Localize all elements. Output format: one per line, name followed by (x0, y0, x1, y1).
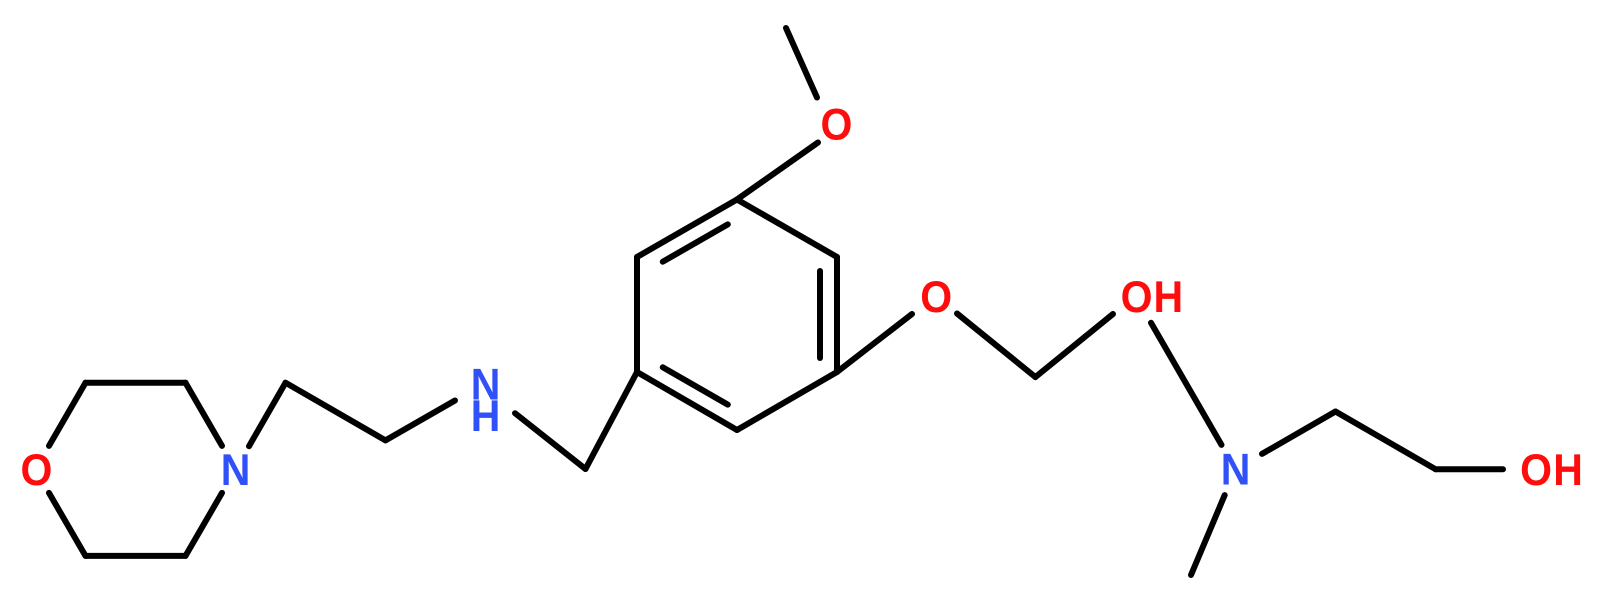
morpholine bond Cm3-N1 (186, 383, 223, 446)
chain bond N1-V1 (249, 383, 286, 447)
bond O2-CH3 methyl (786, 28, 817, 98)
svg-text:N: N (221, 445, 251, 495)
benzene bond B-C (834, 257, 840, 372)
chain bond V1-V2 (286, 383, 386, 441)
benzene bond C-D (737, 372, 837, 430)
morpholine bond N1-Cm5 (186, 493, 223, 556)
bond N2-V5 (1262, 412, 1336, 454)
bond A-O2 methoxy (737, 143, 818, 200)
svg-text:H: H (1553, 446, 1583, 496)
morpholine bond Cm6-O1 (49, 493, 86, 556)
bond O3-V4 (957, 314, 1035, 378)
svg-text:O: O (1121, 273, 1153, 323)
bond C-O3 aryl ether (837, 314, 912, 372)
svg-text:O: O (21, 446, 53, 496)
benzene bond A-B (737, 200, 837, 258)
bond V4-O4 to OH (1035, 314, 1113, 377)
benzene bond E-F (634, 257, 640, 372)
benzene bond D-E (637, 372, 737, 430)
benzene double bond inner D-E (663, 367, 728, 404)
bond V5-V6 (1336, 412, 1436, 470)
bond V6-O5 to OH (1436, 466, 1504, 472)
svg-text:O: O (821, 100, 853, 150)
morpholine bond Cm5-Cm6 (86, 553, 186, 559)
bond N2-CH3 methyl (1191, 495, 1225, 575)
svg-text:H: H (471, 392, 501, 442)
svg-text:N: N (1221, 445, 1251, 495)
benzene bond F-A (637, 200, 737, 258)
morpholine ring: bond O1-Cm2 (49, 383, 86, 446)
bond NH-V3 benzylic (515, 413, 586, 469)
morpholine bond Cm2-Cm3 (86, 380, 186, 386)
chain bond V2-NH (386, 401, 456, 441)
bond O4-N2 straight (two collinear bonds via CH2) (1151, 323, 1222, 445)
bond V3-E to benzene (586, 372, 638, 469)
svg-text:H: H (1153, 273, 1183, 323)
svg-text:O: O (920, 272, 952, 322)
benzene double bond inner F-A (663, 224, 728, 261)
benzene double bond inner B-C (817, 271, 823, 358)
svg-text:O: O (1520, 446, 1552, 496)
